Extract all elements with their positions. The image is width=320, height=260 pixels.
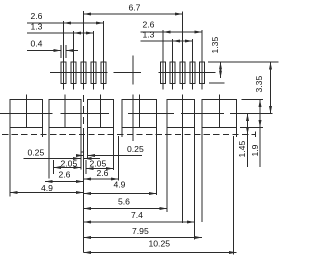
svg-text:7.95: 7.95 [132, 226, 149, 236]
svg-text:2.6: 2.6 [31, 11, 43, 21]
svg-text:4.9: 4.9 [114, 179, 126, 189]
svg-text:1.9: 1.9 [250, 144, 260, 156]
svg-text:1.3: 1.3 [31, 22, 43, 32]
svg-text:0.4: 0.4 [31, 39, 43, 49]
svg-text:10.25: 10.25 [149, 239, 171, 249]
svg-text:1.45: 1.45 [237, 141, 247, 158]
svg-text:0.25: 0.25 [28, 148, 45, 158]
svg-text:1.35: 1.35 [210, 37, 220, 54]
svg-text:7.4: 7.4 [131, 210, 143, 220]
svg-text:2.05: 2.05 [90, 158, 107, 168]
svg-text:1.3: 1.3 [143, 30, 155, 40]
svg-text:5.6: 5.6 [118, 197, 130, 207]
svg-text:4.9: 4.9 [41, 183, 53, 193]
svg-text:0.25: 0.25 [127, 144, 144, 154]
svg-text:3.35: 3.35 [254, 76, 264, 93]
svg-text:2.6: 2.6 [59, 169, 71, 179]
svg-text:6.7: 6.7 [129, 2, 141, 12]
svg-text:2.6: 2.6 [143, 20, 155, 30]
